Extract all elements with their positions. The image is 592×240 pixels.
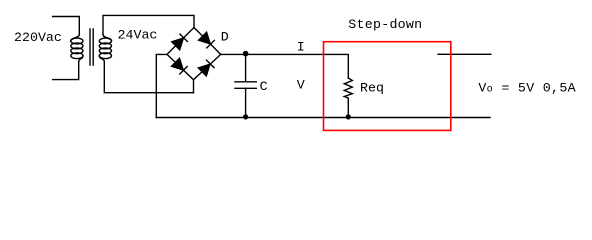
svg-text:220Vac: 220Vac (14, 30, 62, 45)
junction node resistor bottom (346, 114, 351, 119)
capacitor C plates (235, 82, 256, 89)
svg-text:V: V (297, 77, 305, 92)
wire bridge bottom lead (193, 80, 195, 93)
svg-text:C: C (260, 79, 268, 94)
capacitor C leads (245, 54, 247, 117)
wire secondary top (103, 15, 194, 34)
svg-text:Vo = 5V 0,5A: Vo = 5V 0,5A (478, 81, 576, 96)
svg-text:Step-down: Step-down (348, 17, 422, 32)
wire secondary bottom (104, 62, 193, 93)
diode D4 bottom-right (198, 60, 215, 77)
wire primary bottom (53, 62, 79, 80)
diode D2 top-right (198, 32, 215, 49)
svg-text:I: I (297, 40, 305, 55)
svg-text:D: D (221, 29, 229, 44)
wire bridge left vertex to bottom rail (156, 54, 167, 117)
transformer T1 primary winding (71, 35, 80, 42)
diode D1 top-left (171, 34, 188, 51)
resistor Req zigzag (344, 78, 352, 118)
bridge rectifier diamond (167, 28, 221, 80)
svg-text:24Vac: 24Vac (118, 28, 158, 43)
junction node capacitor top (243, 51, 249, 57)
wire bottom rail (156, 117, 490, 119)
wire top rail right segment (438, 53, 491, 55)
junction node capacitor bottom (243, 114, 248, 119)
transformer T1 core (90, 29, 93, 65)
wire top rail left segment (221, 54, 349, 78)
svg-text:Req: Req (360, 80, 384, 95)
step-down block box (324, 42, 451, 131)
diode D3 bottom-left (171, 58, 188, 75)
wire primary top (53, 17, 80, 35)
transformer T1 secondary winding (103, 35, 112, 42)
